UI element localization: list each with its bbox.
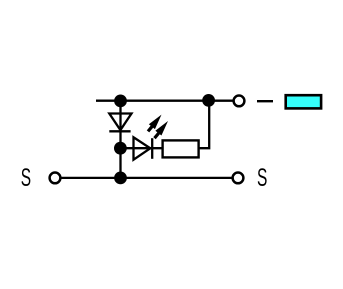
wire top rail <box>96 100 233 102</box>
wire resistor to top rail riser <box>198 101 209 149</box>
resistor R1 <box>163 140 199 157</box>
node junction top-right <box>202 94 215 107</box>
terminal circle bottom-right <box>233 173 244 184</box>
wire LED-resistor branch <box>121 147 200 149</box>
svg-text:S: S <box>257 165 267 193</box>
node junction middle <box>114 142 127 155</box>
terminal circle bottom-left <box>50 173 61 184</box>
dash separator <box>257 100 273 102</box>
node junction bottom <box>114 172 127 185</box>
svg-text:S: S <box>21 165 31 193</box>
diode D1 (vertical, cathode down) <box>109 114 131 132</box>
terminal circle top-right <box>234 96 245 107</box>
node junction top-left <box>114 95 127 108</box>
wire bottom rail <box>62 177 232 179</box>
wire vertical left branch <box>119 101 121 178</box>
LED D2 (pointing right) <box>134 137 153 159</box>
LED emission arrow 2 <box>155 121 169 138</box>
LED emission arrow 1 <box>148 115 162 132</box>
marker tag (cyan) <box>286 95 321 108</box>
